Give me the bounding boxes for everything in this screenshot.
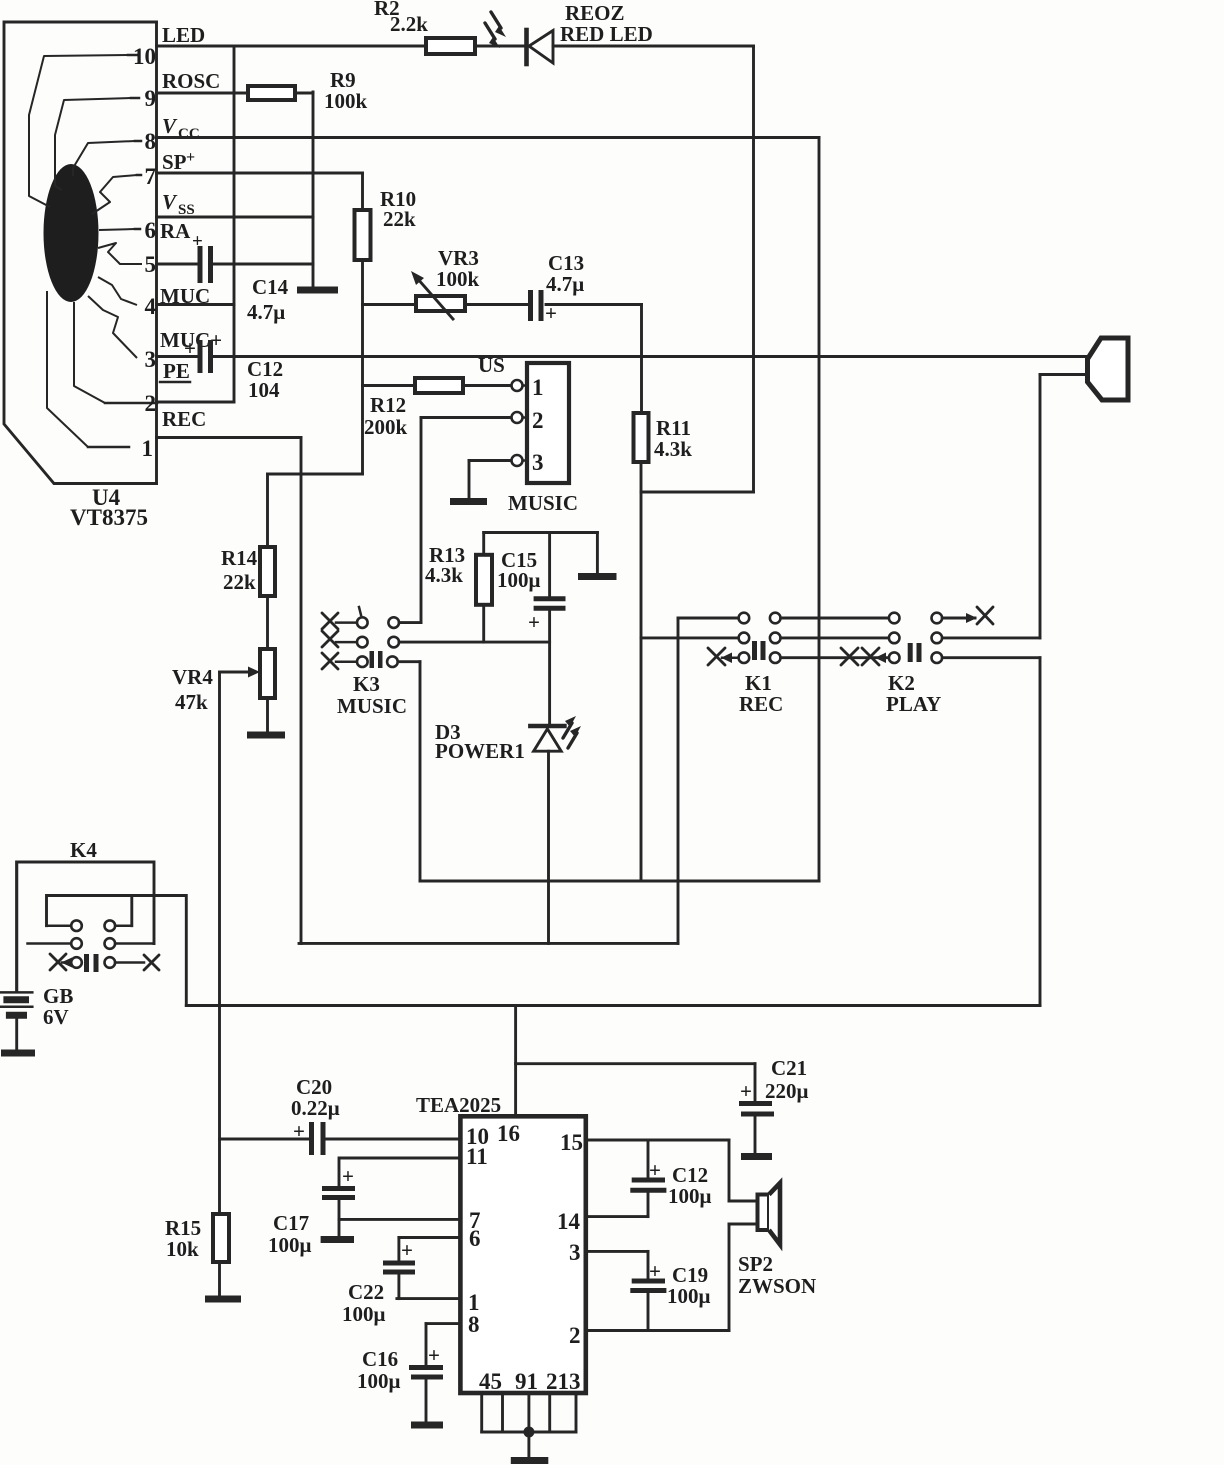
svg-text:RA: RA <box>160 219 191 243</box>
svg-text:16: 16 <box>497 1121 520 1146</box>
svg-text:47k: 47k <box>175 690 208 714</box>
svg-text:C16: C16 <box>362 1347 398 1371</box>
svg-text:+: + <box>186 149 195 166</box>
svg-text:US: US <box>478 353 505 377</box>
svg-text:RED LED: RED LED <box>560 22 653 46</box>
svg-text:VR4: VR4 <box>172 665 213 689</box>
svg-text:+: + <box>401 1238 413 1262</box>
svg-text:VT8375: VT8375 <box>70 505 148 530</box>
svg-text:SP: SP <box>162 150 187 174</box>
svg-text:4.3k: 4.3k <box>654 437 692 461</box>
svg-text:9: 9 <box>145 86 157 111</box>
svg-text:SP2: SP2 <box>738 1252 773 1276</box>
svg-text:6: 6 <box>145 218 157 243</box>
svg-text:CC: CC <box>178 126 200 142</box>
svg-text:213: 213 <box>546 1369 581 1394</box>
svg-text:100μ: 100μ <box>667 1284 711 1308</box>
svg-text:91: 91 <box>515 1369 538 1394</box>
svg-text:5: 5 <box>145 252 157 277</box>
svg-text:4: 4 <box>145 294 157 319</box>
svg-text:100μ: 100μ <box>668 1184 712 1208</box>
svg-text:4.7μ: 4.7μ <box>546 272 584 296</box>
svg-text:100μ: 100μ <box>268 1233 312 1257</box>
svg-text:POWER1: POWER1 <box>435 739 525 763</box>
svg-text:100μ: 100μ <box>497 568 541 592</box>
svg-text:ROSC: ROSC <box>162 69 220 93</box>
svg-text:V: V <box>162 190 178 214</box>
svg-text:TEA2025: TEA2025 <box>416 1093 501 1117</box>
svg-text:R12: R12 <box>370 393 406 417</box>
svg-text:220μ: 220μ <box>765 1079 809 1103</box>
svg-text:2: 2 <box>569 1323 581 1348</box>
svg-text:22k: 22k <box>383 207 416 231</box>
svg-text:10: 10 <box>133 44 156 69</box>
svg-text:REC: REC <box>162 407 206 431</box>
svg-text:+: + <box>293 1119 305 1143</box>
svg-text:3: 3 <box>532 450 544 475</box>
svg-text:+: + <box>184 336 196 360</box>
svg-text:22k: 22k <box>223 570 256 594</box>
svg-text:6: 6 <box>469 1226 481 1251</box>
svg-text:8: 8 <box>468 1312 480 1337</box>
svg-text:4.7μ: 4.7μ <box>247 300 285 324</box>
svg-text:ZWSON: ZWSON <box>738 1274 816 1298</box>
svg-text:3: 3 <box>569 1240 581 1265</box>
svg-text:100k: 100k <box>436 267 480 291</box>
svg-text:14: 14 <box>557 1209 581 1234</box>
svg-text:100μ: 100μ <box>357 1369 401 1393</box>
svg-text:4.3k: 4.3k <box>425 563 463 587</box>
svg-text:1: 1 <box>142 436 154 461</box>
svg-text:2: 2 <box>145 391 157 416</box>
svg-text:0.22μ: 0.22μ <box>291 1096 340 1120</box>
svg-text:V: V <box>162 114 178 138</box>
svg-text:45: 45 <box>479 1369 502 1394</box>
svg-text:LED: LED <box>162 23 205 47</box>
svg-text:C21: C21 <box>771 1056 807 1080</box>
svg-text:8: 8 <box>145 129 157 154</box>
svg-text:3: 3 <box>145 347 157 372</box>
svg-text:REC: REC <box>739 692 783 716</box>
svg-text:K3: K3 <box>353 672 380 696</box>
svg-text:C14: C14 <box>252 275 289 299</box>
svg-text:+: + <box>649 1158 661 1182</box>
svg-text:MUSIC: MUSIC <box>337 694 407 718</box>
svg-text:15: 15 <box>560 1130 583 1155</box>
svg-text:PLAY: PLAY <box>886 692 941 716</box>
svg-text:1: 1 <box>532 375 544 400</box>
svg-text:+: + <box>428 1343 440 1367</box>
svg-text:+: + <box>192 231 203 252</box>
svg-text:+: + <box>528 610 540 634</box>
svg-text:C17: C17 <box>273 1211 309 1235</box>
svg-text:7: 7 <box>145 164 157 189</box>
svg-text:11: 11 <box>466 1144 488 1169</box>
svg-text:2: 2 <box>532 408 544 433</box>
svg-text:200k: 200k <box>364 415 408 439</box>
svg-text:100μ: 100μ <box>342 1302 386 1326</box>
svg-text:R14: R14 <box>221 546 258 570</box>
svg-text:10k: 10k <box>166 1237 199 1261</box>
svg-text:100k: 100k <box>324 89 368 113</box>
svg-text:104: 104 <box>248 378 280 402</box>
svg-text:MUSIC: MUSIC <box>508 491 578 515</box>
svg-text:+: + <box>342 1164 354 1188</box>
svg-text:+: + <box>649 1259 661 1283</box>
svg-text:C22: C22 <box>348 1280 384 1304</box>
svg-text:+: + <box>740 1079 752 1103</box>
svg-text:K4: K4 <box>70 838 97 862</box>
svg-text:2.2k: 2.2k <box>390 12 428 36</box>
svg-text:PE: PE <box>163 359 190 383</box>
svg-text:6V: 6V <box>43 1005 69 1029</box>
